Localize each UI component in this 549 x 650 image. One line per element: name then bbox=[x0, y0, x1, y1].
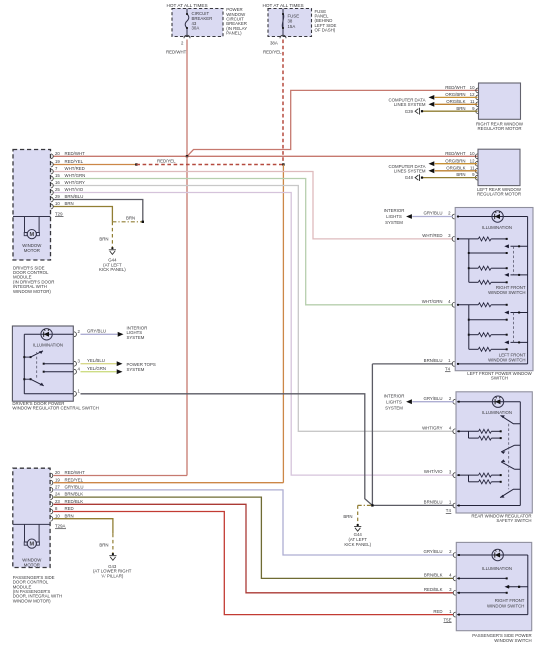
wire ORG/BRN left rear motor bbox=[435, 163, 477, 165]
wire RED/WHT down to passenger module bbox=[186, 156, 188, 475]
svg-text:12: 12 bbox=[470, 92, 475, 97]
rear window regulator safety switch box S3 bbox=[456, 392, 532, 513]
passenger module pins bbox=[50, 473, 52, 478]
window motor leads (passenger) bbox=[25, 524, 40, 542]
wire WHT/RED pin7 to left front switch pin3 bbox=[53, 172, 453, 239]
passenger switch pins bbox=[453, 553, 455, 558]
svg-text:BRN: BRN bbox=[65, 201, 74, 206]
svg-text:38A: 38A bbox=[270, 41, 278, 46]
svg-text:GRY/BLU: GRY/BLU bbox=[424, 396, 443, 401]
wire BRN/BLU safety pin1 bbox=[372, 504, 453, 506]
svg-text:27: 27 bbox=[55, 485, 60, 490]
svg-text:M: M bbox=[29, 232, 34, 238]
svg-text:BRN/BLU: BRN/BLU bbox=[424, 500, 443, 505]
wire pin3 row (RFWS) bbox=[457, 238, 478, 240]
pin3 row (central) bbox=[43, 363, 45, 365]
window motor leads bbox=[25, 217, 40, 233]
junction RED/YEL node bbox=[282, 163, 284, 165]
svg-text:LINES SYSTEM: LINES SYSTEM bbox=[394, 102, 426, 107]
svg-text:T4: T4 bbox=[445, 367, 451, 372]
svg-text:ILLUMINATION: ILLUMINATION bbox=[482, 225, 512, 230]
svg-text:SAFETY SWITCH: SAFETY SWITCH bbox=[496, 518, 531, 523]
svg-text:WHT/GRN: WHT/GRN bbox=[65, 173, 86, 178]
pin 38A of fuse bbox=[280, 35, 286, 38]
wire pin1 row (passenger switch) bbox=[457, 614, 528, 616]
fuse 38 15A box (hot at all times) bbox=[268, 9, 312, 37]
switch arm bottom (safety) bbox=[500, 489, 520, 497]
resistor pair pin3 (safety) bbox=[457, 474, 479, 476]
wire BRN/BLK pin24 to passenger switch pin4 bbox=[53, 497, 453, 578]
resistor row 4 (LFWS) bbox=[468, 334, 470, 336]
svg-text:20: 20 bbox=[55, 151, 60, 156]
svg-text:16: 16 bbox=[55, 180, 60, 185]
wire RED/BLK pin23 to passenger switch pin3 bbox=[53, 504, 453, 593]
wire left bus (central switch) bbox=[23, 334, 25, 394]
svg-text:BRN/BLK: BRN/BLK bbox=[65, 492, 84, 497]
wire RED/WHT to left rear motor bbox=[187, 155, 520, 157]
driver door control module box U1 bbox=[13, 150, 51, 261]
wire RED/YEL down to passenger module bbox=[282, 165, 284, 483]
wire ORG/BLK left rear motor bbox=[435, 170, 477, 172]
svg-text:ORG/BLK: ORG/BLK bbox=[446, 165, 465, 170]
svg-text:BRN: BRN bbox=[456, 106, 465, 111]
wire BRN splice run right side bbox=[358, 504, 373, 506]
svg-text:ILLUMINATION: ILLUMINATION bbox=[482, 566, 512, 571]
wire YEL/BLU central pin3 bbox=[81, 363, 117, 365]
dashed selector link (RFWS) bbox=[512, 246, 514, 275]
left rear motor pins bbox=[475, 154, 477, 159]
svg-text:T5E: T5E bbox=[444, 617, 452, 622]
resistor row 6 (LFWS) bbox=[469, 348, 479, 350]
svg-text:ORG/BRN: ORG/BRN bbox=[445, 158, 465, 163]
wire pin1 row (LFPW) bbox=[457, 363, 528, 365]
svg-text:REGULATOR MOTOR: REGULATOR MOTOR bbox=[477, 192, 521, 197]
svg-text:WINDOW SWITCH: WINDOW SWITCH bbox=[494, 638, 531, 643]
svg-text:SYSTEM: SYSTEM bbox=[127, 367, 145, 372]
ground G44 (right side) bbox=[357, 524, 359, 526]
svg-text:OF DASH): OF DASH) bbox=[315, 27, 336, 32]
central switch pins bbox=[74, 332, 76, 337]
svg-text:'A' PILLAR): 'A' PILLAR) bbox=[101, 573, 124, 578]
svg-text:BRN: BRN bbox=[343, 514, 352, 519]
svg-text:HOT AT ALL TIMES: HOT AT ALL TIMES bbox=[167, 3, 208, 8]
svg-text:RED/YEL: RED/YEL bbox=[263, 50, 282, 55]
wire ORG/BLK right rear motor bbox=[435, 103, 478, 105]
svg-text:10: 10 bbox=[55, 513, 60, 518]
wire BRN pin10 passenger down bbox=[53, 519, 113, 534]
svg-text:ORG/BLK: ORG/BLK bbox=[446, 99, 465, 104]
switch arm mid-upper (safety) bbox=[501, 445, 520, 452]
resistor row 6 (RFWS) bbox=[469, 281, 479, 283]
left front power window switch box S2 bbox=[455, 208, 533, 371]
svg-text:10: 10 bbox=[470, 151, 475, 156]
svg-text:LIGHTS: LIGHTS bbox=[386, 214, 402, 219]
window motor M (driver) bbox=[27, 230, 36, 239]
wire YEL/GRN central pin4 bbox=[81, 371, 117, 373]
wire BRN splice run (dash-dot) bbox=[112, 221, 142, 223]
svg-text:YEL/BLU: YEL/BLU bbox=[87, 358, 105, 363]
selector row 2 (LFWS) bbox=[504, 311, 509, 315]
module divider bbox=[13, 216, 51, 218]
svg-text:WHT/GRY: WHT/GRY bbox=[422, 426, 443, 431]
svg-text:HOT AT ALL TIMES: HOT AT ALL TIMES bbox=[263, 3, 304, 8]
wire illumination row (safety) bbox=[457, 401, 520, 403]
wire BRN/BLU central pin1 to ground splice bbox=[81, 394, 373, 506]
svg-text:LIGHTS: LIGHTS bbox=[386, 399, 402, 404]
passenger door control module box U2 bbox=[13, 468, 50, 567]
svg-text:BRN/BLU: BRN/BLU bbox=[424, 358, 443, 363]
svg-text:ILLUMINATION: ILLUMINATION bbox=[33, 343, 63, 348]
switch arm top (safety) bbox=[501, 415, 521, 423]
resistor row 4 (RFWS) bbox=[468, 267, 470, 269]
svg-text:WHT/RED: WHT/RED bbox=[422, 233, 442, 238]
driver door central switch box S1 bbox=[12, 326, 73, 401]
svg-text:30A: 30A bbox=[192, 26, 200, 31]
svg-text:BRN: BRN bbox=[99, 237, 108, 242]
ground G39 bbox=[415, 108, 419, 115]
svg-text:SYSTEM: SYSTEM bbox=[385, 405, 403, 410]
right rear motor pins bbox=[476, 88, 478, 93]
dashed selector link (safety) bbox=[508, 424, 510, 489]
svg-text:RED/BLK: RED/BLK bbox=[424, 587, 443, 592]
wire BRN right rear motor to G39 bbox=[423, 110, 478, 112]
svg-text:REGULATOR MOTOR: REGULATOR MOTOR bbox=[478, 126, 522, 131]
svg-text:SYSTEM: SYSTEM bbox=[385, 220, 403, 225]
safety switch pins bbox=[453, 399, 455, 404]
junction RED/WHT node bbox=[186, 155, 188, 157]
svg-text:RED/WHT: RED/WHT bbox=[166, 50, 187, 55]
selector row 5 (LFWS) bbox=[504, 341, 509, 345]
svg-text:MOTOR: MOTOR bbox=[24, 563, 40, 568]
wire GRY/BLU central pin2 bbox=[81, 333, 118, 335]
svg-text:WHT/RED: WHT/RED bbox=[65, 166, 85, 171]
svg-text:RED: RED bbox=[65, 506, 74, 511]
wire RED pin8 to passenger switch pin1 bbox=[53, 512, 453, 615]
svg-text:SYSTEM: SYSTEM bbox=[127, 335, 145, 340]
svg-text:BRN/BLK: BRN/BLK bbox=[424, 573, 443, 578]
junction BRN splice dot bbox=[142, 221, 144, 223]
circuit breaker 43 30A symbol bbox=[186, 9, 188, 37]
svg-text:19: 19 bbox=[55, 159, 60, 164]
wire GRY/BLU LFPW pin2 bbox=[412, 216, 453, 218]
wire WHT/GRN pin15 to left front switch pin4 bbox=[53, 179, 453, 305]
svg-text:WHT/GRY: WHT/GRY bbox=[65, 180, 86, 185]
wire pin1 row (safety) bbox=[457, 505, 520, 507]
svg-text:WINDOW SWITCH: WINDOW SWITCH bbox=[488, 290, 525, 295]
wire left bus (LFWS) bbox=[468, 305, 470, 350]
wire illumination row (central switch) bbox=[24, 333, 73, 335]
row 3 (RFWS) bbox=[468, 252, 470, 254]
power window circuit breaker box (hot at all times) bbox=[172, 9, 223, 37]
svg-text:RED/BLK: RED/BLK bbox=[65, 499, 84, 504]
dashed selector link (LFWS) bbox=[512, 313, 514, 343]
illumination lamp (passenger switch) bbox=[492, 549, 503, 560]
svg-text:GRY/BLU: GRY/BLU bbox=[424, 211, 443, 216]
svg-text:M: M bbox=[29, 542, 34, 548]
svg-text:15: 15 bbox=[55, 173, 60, 178]
svg-text:WHT/VIO: WHT/VIO bbox=[65, 187, 84, 192]
svg-text:SWITCH: SWITCH bbox=[491, 376, 508, 381]
svg-text:23: 23 bbox=[55, 499, 60, 504]
wire left bus (RFWS) bbox=[468, 239, 470, 282]
wire RED/YEL fuse down (dashed) bbox=[282, 40, 284, 165]
svg-text:BRN: BRN bbox=[126, 216, 135, 221]
selector row (passenger switch) bbox=[505, 585, 510, 589]
LFPW switch pins bbox=[452, 214, 454, 219]
ground G44 (driver side) bbox=[111, 247, 113, 249]
wire RED/WHT pin20 passenger module bbox=[53, 475, 187, 477]
svg-text:11: 11 bbox=[470, 165, 475, 170]
svg-text:INTERIOR: INTERIOR bbox=[384, 208, 405, 213]
wire RED/YEL pin19 driver module bbox=[53, 164, 136, 166]
illumination lamp (central switch) bbox=[41, 329, 52, 340]
svg-text:WINDOW SWITCH: WINDOW SWITCH bbox=[487, 603, 524, 608]
svg-text:RIGHT FRONT: RIGHT FRONT bbox=[495, 598, 525, 603]
driver module pins bbox=[51, 154, 53, 159]
wire RED/WHT breaker to junction bbox=[186, 40, 188, 157]
svg-text:15A: 15A bbox=[288, 24, 296, 29]
pin 2 of circuit breaker bbox=[184, 35, 190, 38]
svg-text:MOTOR: MOTOR bbox=[24, 248, 40, 253]
selector row 5 (RFWS) bbox=[504, 273, 509, 277]
switch arm lower (central) bbox=[23, 378, 25, 380]
svg-text:RED/WHT: RED/WHT bbox=[65, 470, 86, 475]
svg-text:YEL/GRN: YEL/GRN bbox=[87, 366, 106, 371]
wire BRN/BLU LFPW pin1 bbox=[372, 363, 453, 365]
passenger side power window switch box S4 bbox=[456, 542, 531, 630]
svg-text:20: 20 bbox=[55, 470, 60, 475]
svg-text:25: 25 bbox=[55, 187, 60, 192]
wire pin4 row (LFWS) bbox=[457, 304, 478, 306]
wire BRN/BLU LFPW down to splice bbox=[371, 364, 373, 506]
svg-text:ORG/BRN: ORG/BRN bbox=[445, 92, 465, 97]
wire right bus (passenger switch) bbox=[527, 555, 529, 615]
svg-text:24: 24 bbox=[55, 492, 60, 497]
svg-text:GRY/BLU: GRY/BLU bbox=[65, 485, 84, 490]
wire illumination row (passenger switch) bbox=[457, 554, 528, 556]
wire GRY/BLU pin27 to passenger switch pin2 bbox=[53, 490, 453, 555]
wire BRN pin10 down bbox=[53, 207, 112, 222]
wire pin1 row (central switch) bbox=[24, 393, 73, 395]
wire WHT/GRY pin16 to safety switch pin4 bbox=[53, 186, 453, 432]
wire WHT/VIO pin25 to safety switch pin3 bbox=[53, 193, 453, 476]
module divider (passenger) bbox=[13, 523, 50, 525]
svg-text:INTERIOR: INTERIOR bbox=[384, 393, 405, 398]
svg-text:WINDOW MOTOR): WINDOW MOTOR) bbox=[13, 598, 51, 603]
svg-text:10: 10 bbox=[470, 85, 475, 90]
wire RED/WHT branch to right rear motor bbox=[187, 90, 479, 156]
resistor row 2 (RFWS selector) bbox=[504, 244, 509, 248]
svg-text:GRY/BLU: GRY/BLU bbox=[424, 549, 443, 554]
svg-text:BRN: BRN bbox=[456, 172, 465, 177]
switch arm upper (central) bbox=[23, 356, 25, 358]
wire BRN/BLU pin29 to splice bbox=[53, 200, 142, 222]
svg-text:RED/YEL: RED/YEL bbox=[65, 159, 84, 164]
wire RED/WHT pin20 driver module bbox=[53, 155, 187, 157]
wire right bus (safety) bbox=[519, 402, 521, 506]
svg-text:RED/WHT: RED/WHT bbox=[65, 151, 86, 156]
svg-text:WHT/GRN: WHT/GRN bbox=[422, 299, 443, 304]
resistor pair pin4 (safety) bbox=[457, 430, 479, 432]
svg-text:WINDOW MOTOR): WINDOW MOTOR) bbox=[13, 289, 51, 294]
wire RED/YEL pin19 passenger module bbox=[53, 482, 283, 484]
svg-text:KICK PANEL): KICK PANEL) bbox=[344, 542, 371, 547]
svg-text:WINDOW REGULATOR CENTRAL SWITC: WINDOW REGULATOR CENTRAL SWITCH bbox=[12, 406, 99, 411]
svg-text:G48: G48 bbox=[405, 175, 414, 180]
dashed link (central switch) bbox=[36, 352, 38, 379]
svg-text:WHT/VIO: WHT/VIO bbox=[424, 469, 443, 474]
splice dot RED/YEL left bbox=[135, 163, 137, 165]
svg-text:RED/YEL: RED/YEL bbox=[157, 159, 176, 164]
svg-text:PANEL): PANEL) bbox=[226, 30, 242, 35]
svg-text:RED/WHT: RED/WHT bbox=[445, 151, 466, 156]
svg-text:GRY/BLU: GRY/BLU bbox=[87, 328, 106, 333]
wire BRN left rear motor to G48 bbox=[423, 177, 477, 179]
svg-text:BRN/BLU: BRN/BLU bbox=[65, 194, 84, 199]
ground G43 bbox=[112, 553, 114, 555]
svg-text:WINDOW SWITCH: WINDOW SWITCH bbox=[488, 357, 525, 362]
left rear window regulator motor box M2 bbox=[478, 149, 520, 185]
svg-text:BRN: BRN bbox=[99, 543, 108, 548]
illumination lamp (left front power switch) bbox=[492, 211, 503, 222]
svg-text:12: 12 bbox=[470, 158, 475, 163]
wire GRY/BLU safety pin2 bbox=[412, 401, 454, 403]
fuse 38 15A symbol bbox=[282, 9, 284, 37]
switch arm mid-lower (safety) bbox=[501, 462, 520, 469]
pin3 row (passenger switch) bbox=[457, 592, 507, 594]
svg-text:LINES SYSTEM: LINES SYSTEM bbox=[394, 169, 426, 174]
ground G48 bbox=[415, 174, 419, 181]
svg-text:29: 29 bbox=[55, 194, 60, 199]
row 3 (LFWS) bbox=[468, 319, 470, 321]
pin4 row (central) bbox=[43, 371, 45, 373]
wire ORG/BRN right rear motor bbox=[435, 96, 478, 98]
wire BRN down to ground G44 right bbox=[357, 505, 359, 524]
svg-text:T29: T29 bbox=[55, 211, 63, 216]
window motor M (passenger) bbox=[27, 539, 36, 548]
svg-text:G39: G39 bbox=[405, 109, 414, 114]
junction BRN/BLU splice dot bbox=[371, 504, 373, 506]
svg-text:11: 11 bbox=[470, 99, 475, 104]
svg-text:BRN: BRN bbox=[65, 513, 74, 518]
svg-text:10: 10 bbox=[55, 201, 60, 206]
right rear window regulator motor box M1 bbox=[479, 83, 521, 119]
pin4 row (passenger switch) bbox=[457, 577, 507, 579]
svg-text:ILLUMINATION: ILLUMINATION bbox=[482, 410, 512, 415]
svg-text:KICK PANEL): KICK PANEL) bbox=[99, 267, 126, 272]
svg-text:RED: RED bbox=[433, 609, 442, 614]
wire right bus (LFPW) bbox=[527, 217, 529, 364]
svg-text:T29A: T29A bbox=[55, 524, 65, 529]
LFPW inner illumination row bbox=[457, 216, 528, 218]
illumination lamp (safety switch) bbox=[492, 396, 503, 407]
wire BRN dashed to ground G43 bbox=[112, 534, 114, 554]
svg-text:19: 19 bbox=[55, 477, 60, 482]
svg-text:RED/WHT: RED/WHT bbox=[445, 85, 466, 90]
svg-text:RED/YEL: RED/YEL bbox=[65, 477, 84, 482]
wire BRN down to ground G44 bbox=[111, 222, 113, 248]
svg-text:T4: T4 bbox=[446, 508, 452, 513]
wire RED/YEL dashed run bbox=[136, 164, 283, 166]
